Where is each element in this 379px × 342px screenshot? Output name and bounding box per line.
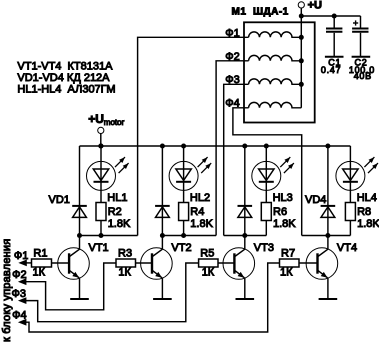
svg-text:VT1: VT1 [89, 242, 109, 254]
svg-text:VD1: VD1 [49, 194, 70, 206]
junction rail stage 3 [264, 144, 269, 149]
junction C1 top [332, 14, 337, 19]
junction collector node VT2 [160, 233, 165, 238]
input Ф4 arrow [18, 319, 27, 326]
transistor VT4 [327, 236, 329, 250]
svg-text:motor: motor [104, 118, 125, 127]
svg-text:R2: R2 [108, 206, 122, 218]
common terminal bar C2 [352, 56, 371, 58]
svg-text:0.47: 0.47 [321, 65, 341, 75]
svg-text:+U: +U [308, 0, 322, 12]
resistor R8 [345, 203, 355, 221]
LED HL2 [183, 146, 185, 203]
LED HL3 [265, 146, 267, 203]
svg-text:R3: R3 [118, 247, 132, 259]
junction collector node VT4 [325, 233, 330, 238]
svg-text:VT4: VT4 [337, 242, 357, 254]
transistor VT1 [79, 236, 81, 250]
svg-text:R8: R8 [357, 206, 371, 218]
svg-text:1К: 1К [202, 266, 215, 278]
svg-text:+U: +U [88, 112, 104, 126]
svg-text:1К: 1К [33, 266, 46, 278]
terminal +U [298, 2, 304, 8]
transistor VT2 [161, 236, 163, 250]
winding Ф4 coil [249, 102, 302, 107]
diode VD1 [79, 146, 81, 236]
wire input Ф4 to R7 [25, 263, 279, 332]
svg-text:к блоку управления: к блоку управления [1, 239, 13, 342]
svg-text:HL1: HL1 [107, 192, 127, 204]
svg-text:1.8K: 1.8K [108, 218, 131, 230]
junction collector node VT2 [181, 233, 186, 238]
common terminal bar C1 [325, 56, 344, 58]
svg-text:1.8K: 1.8K [273, 218, 296, 230]
svg-text:1К: 1К [118, 266, 131, 278]
ground bar VT2 emitter [153, 298, 172, 300]
winding Ф2 coil [249, 55, 302, 60]
junction rail stage 3 [242, 144, 247, 149]
wire Ф1 motor to VT1 collector [138, 37, 249, 235]
LED HL1 [100, 146, 102, 203]
svg-text:HL4: HL4 [357, 192, 377, 204]
capacitor C1 [333, 16, 335, 28]
resistor R2 [96, 203, 106, 221]
wire R3 to base [136, 262, 153, 264]
junction +U bus [299, 14, 304, 19]
svg-text:HL2: HL2 [190, 192, 210, 204]
wire input Ф1 [26, 262, 32, 264]
junction collector node VT3 [242, 233, 247, 238]
junction rail stage 1 [99, 144, 104, 149]
wire collector node VT1 [80, 235, 138, 237]
resistor R6 [261, 203, 271, 221]
winding Ф3 coil [249, 79, 302, 84]
junction collector node VT1 [77, 233, 82, 238]
ground bar VT4 emitter [319, 298, 338, 300]
junction rail stage 4 [325, 144, 330, 149]
svg-text:HL3: HL3 [273, 192, 293, 204]
motor M1 ШДА-1 box [244, 22, 315, 122]
wire Ф3 motor to VT3 collector [224, 84, 249, 235]
svg-text:R1: R1 [33, 247, 47, 259]
svg-text:1К: 1К [280, 266, 293, 278]
resistor R1 [32, 259, 52, 267]
svg-text:VT2: VT2 [171, 242, 191, 254]
wire R1 to base [52, 262, 70, 264]
junction bus winding 2 [299, 58, 304, 63]
wire R7 to base [299, 262, 318, 264]
svg-text:VD4: VD4 [305, 194, 326, 206]
resistor R4 [179, 203, 189, 221]
wire collector node VT4 [302, 235, 351, 237]
resistor R5 [199, 259, 218, 267]
resistor R7 [280, 259, 300, 267]
junction bus winding 1 [299, 35, 304, 40]
wire Ф4 motor to VT4 collector [233, 108, 302, 236]
svg-text:1.8K: 1.8K [357, 218, 379, 230]
wire +U top rail [301, 15, 360, 17]
input Ф1 arrow [18, 260, 27, 267]
input Ф3 arrow [18, 297, 27, 304]
svg-text:1.8K: 1.8K [190, 218, 213, 230]
wire input Ф3 to R5 [25, 263, 199, 322]
diode VD4 [327, 146, 329, 236]
junction rail stage 2 [181, 144, 186, 149]
svg-text:Ф3: Ф3 [12, 288, 26, 300]
junction rail stage 2 [160, 144, 165, 149]
input Ф2 arrow [18, 278, 27, 285]
winding Ф1 coil [249, 32, 302, 37]
LED HL4 [349, 146, 351, 203]
svg-text:HL1-HL4 АЛ307ГМ: HL1-HL4 АЛ307ГМ [17, 84, 115, 96]
junction bus winding 3 [299, 82, 304, 87]
junction +Umotor rail [98, 144, 103, 149]
transistor VT3 [244, 236, 246, 250]
wire Ф2 motor to VT2 collector [216, 61, 249, 236]
wire collector node VT2 [162, 235, 216, 237]
svg-text:R6: R6 [273, 206, 287, 218]
wire input Ф2 to R3 [25, 263, 116, 310]
svg-text:Ф4: Ф4 [12, 310, 26, 322]
junction collector node VT1 [99, 233, 104, 238]
svg-text:Ф1: Ф1 [14, 250, 28, 262]
wire R5 to base [218, 262, 234, 264]
ground bar VT3 emitter [236, 298, 255, 300]
capacitor C2 [360, 16, 362, 28]
svg-text:Ф2: Ф2 [12, 269, 26, 281]
svg-text:R7: R7 [281, 247, 295, 259]
diode VD2 [161, 146, 163, 236]
wire +Umotor rail [80, 145, 351, 147]
svg-text:40В: 40В [354, 71, 372, 81]
svg-text:VD1-VD4 КД 212А: VD1-VD4 КД 212А [17, 72, 110, 84]
terminal +Umotor [98, 127, 104, 133]
svg-text:VT3: VT3 [254, 242, 274, 254]
svg-text:R5: R5 [200, 247, 214, 259]
svg-text:VT1-VT4 КТ8131А: VT1-VT4 КТ8131А [17, 60, 113, 72]
wire motor common bus [300, 16, 302, 108]
svg-text:R4: R4 [190, 206, 204, 218]
svg-text:М1 ШДА-1: М1 ШДА-1 [232, 6, 289, 17]
C2 polarity plus [355, 20, 357, 25]
diode VD3 [244, 146, 246, 236]
resistor R3 [116, 259, 136, 267]
wire collector node VT3 [224, 235, 267, 237]
ground bar VT1 emitter [70, 298, 89, 300]
